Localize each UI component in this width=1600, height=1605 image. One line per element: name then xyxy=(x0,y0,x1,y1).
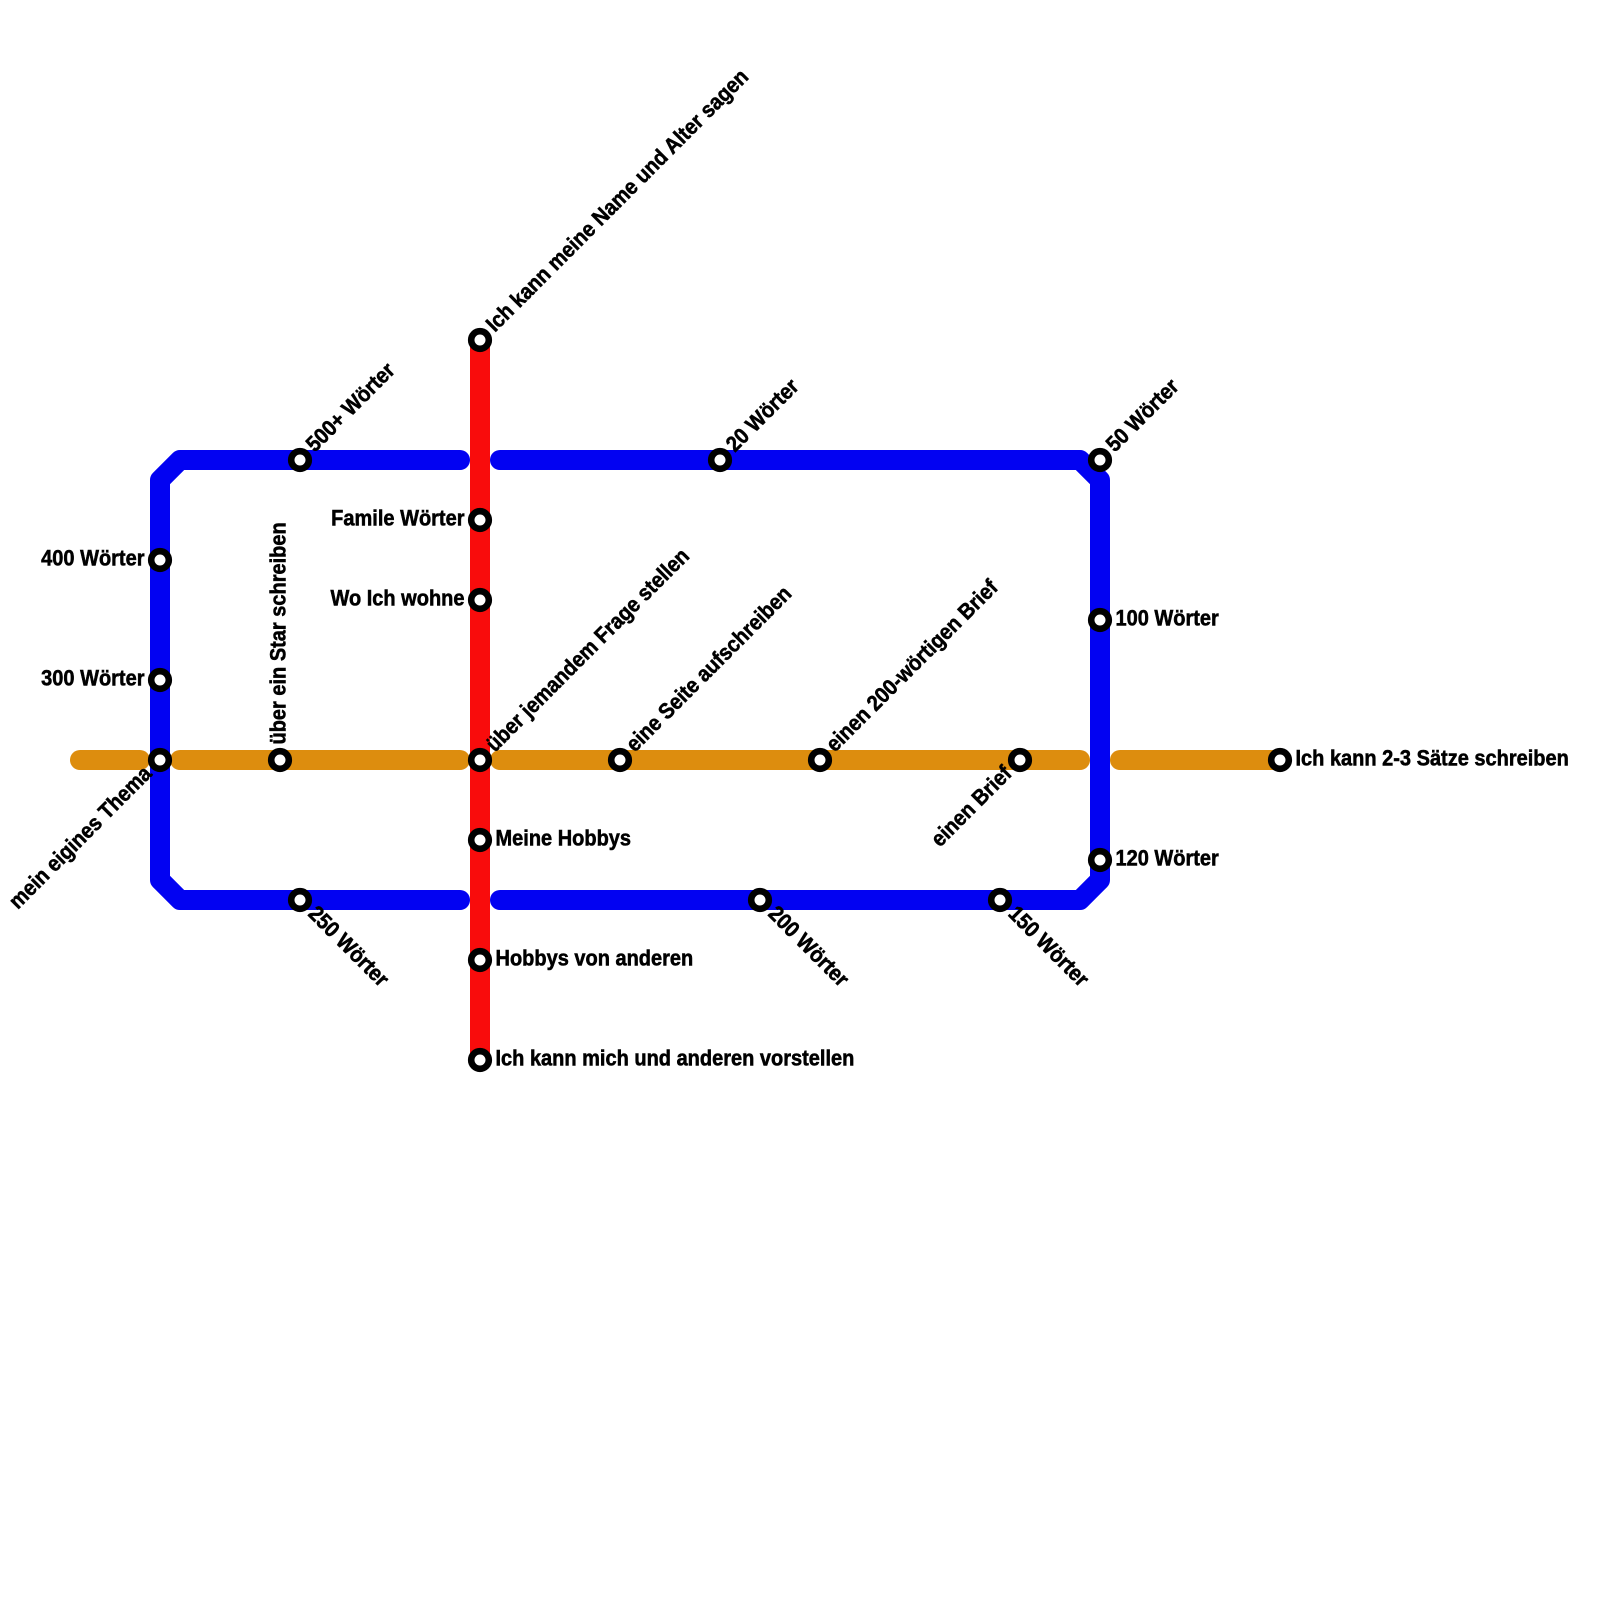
svg-text:400 Wörter: 400 Wörter xyxy=(41,547,144,571)
svg-text:Ich kann 2-3 Sätze schreiben: Ich kann 2-3 Sätze schreiben xyxy=(1296,747,1569,771)
svg-text:100 Wörter: 100 Wörter xyxy=(1116,607,1219,631)
svg-text:Famile Wörter: Famile Wörter xyxy=(331,507,464,531)
svg-text:Ich kann mich und anderen vors: Ich kann mich und anderen vorstellen xyxy=(496,1047,855,1071)
svg-text:über ein Star schreiben: über ein Star schreiben xyxy=(267,522,291,744)
svg-text:120 Wörter: 120 Wörter xyxy=(1116,847,1219,871)
svg-text:300 Wörter: 300 Wörter xyxy=(41,667,144,691)
svg-text:Meine Hobbys: Meine Hobbys xyxy=(496,827,632,851)
svg-text:Hobbys von anderen: Hobbys von anderen xyxy=(496,947,694,971)
svg-text:Wo Ich wohne: Wo Ich wohne xyxy=(330,587,464,611)
